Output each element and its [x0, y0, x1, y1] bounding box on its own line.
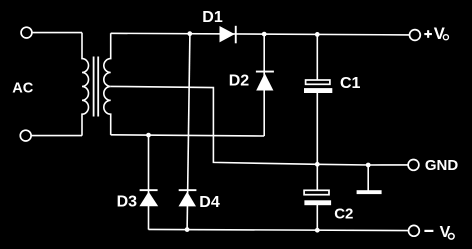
- junction node GND rail / C1 C2: [315, 162, 320, 167]
- capacitor C1 negative plate: [304, 88, 332, 93]
- junction node top rail / D2: [262, 32, 267, 37]
- diode D4: [179, 192, 197, 207]
- subscript o of -Vo: [448, 233, 454, 239]
- diode D2: [256, 73, 273, 90]
- wire ground stub: [367, 165, 369, 191]
- capacitor C2 negative plate: [304, 200, 331, 205]
- wire AC top to transformer primary: [32, 32, 82, 34]
- wire D4 branch: [187, 34, 190, 230]
- subscript o of +Vo: [443, 35, 448, 40]
- wire secondary bottom to D2 anode: [111, 135, 265, 136]
- svg-text:V: V: [434, 24, 445, 43]
- wire C1 top to +V rail: [316, 34, 318, 80]
- wire D2 branch: [263, 34, 265, 136]
- terminal AC top: [21, 27, 32, 38]
- wire top rail (secondary top to +Vo): [111, 33, 410, 35]
- diode D3: [139, 192, 158, 207]
- junction node bottom rail / C2: [315, 228, 320, 233]
- svg-text:AC: AC: [12, 81, 34, 97]
- junction node secondary bottom / D3: [146, 133, 151, 138]
- svg-text:D1: D1: [202, 9, 223, 26]
- wire transformer primary to AC bottom: [31, 135, 82, 137]
- wire C2 bottom to -V rail: [316, 205, 318, 230]
- svg-text:C1: C1: [340, 75, 361, 92]
- wire C1 bottom to GND rail to C2 top: [316, 93, 318, 190]
- minus sign of -Vo: [424, 230, 433, 232]
- svg-text:D2: D2: [229, 73, 250, 90]
- capacitor C2 positive plate: [304, 190, 329, 194]
- junction node bottom rail / D4: [185, 227, 190, 232]
- wire bottom rail (-Vo rail): [149, 229, 409, 230]
- wire D3 branch: [148, 135, 150, 230]
- terminal -Vo: [409, 225, 420, 236]
- diode D1: [220, 26, 235, 42]
- junction node GND rail / ground stub: [366, 163, 371, 168]
- junction node top rail / D4: [187, 31, 192, 36]
- transformer T1 primary winding: [82, 33, 89, 136]
- plus sign of +Vo: [424, 33, 432, 35]
- transformer T1 secondary winding: [104, 33, 111, 135]
- terminal +Vo: [410, 30, 421, 41]
- wire center tap to GND rail: [111, 86, 408, 165]
- svg-text:C2: C2: [334, 206, 353, 223]
- svg-text:D3: D3: [117, 193, 138, 210]
- junction node top rail / C1: [315, 32, 320, 37]
- ground symbol bar: [357, 190, 382, 194]
- svg-text:GND: GND: [425, 157, 459, 174]
- capacitor C1 positive plate: [306, 80, 330, 84]
- svg-text:V: V: [440, 224, 451, 241]
- transformer T1 core: [94, 57, 99, 117]
- terminal AC bottom: [20, 130, 31, 141]
- terminal GND: [408, 160, 419, 171]
- svg-text:D4: D4: [199, 194, 220, 211]
